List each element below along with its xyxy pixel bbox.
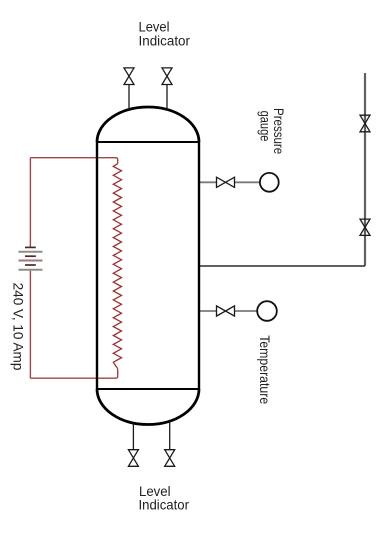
svg-text:Temperature: Temperature — [257, 335, 273, 404]
svg-text:Indicator: Indicator — [139, 497, 190, 513]
svg-text:Indicator: Indicator — [139, 33, 191, 49]
svg-text:240 V, 10 Amp: 240 V, 10 Amp — [11, 283, 27, 371]
svg-text:gauge: gauge — [257, 111, 273, 142]
